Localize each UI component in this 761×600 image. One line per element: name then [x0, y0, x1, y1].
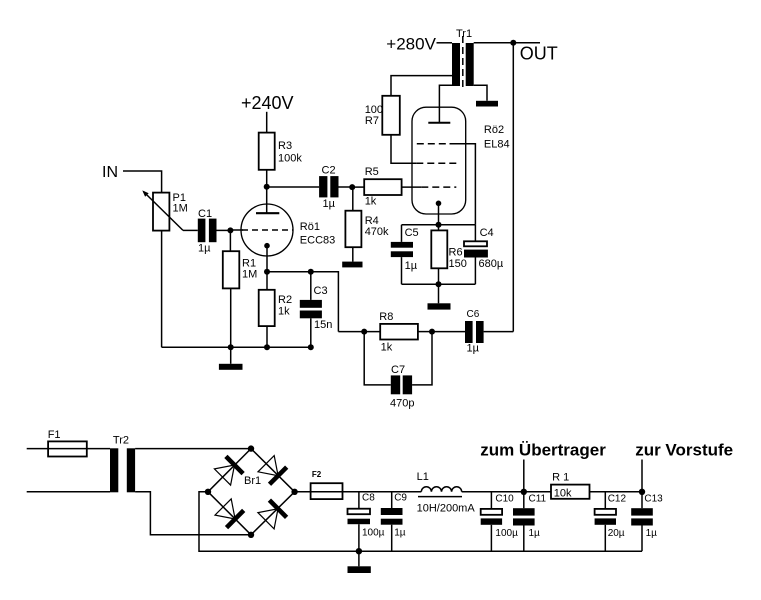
resistor R3: [259, 133, 275, 170]
node bridge left: [205, 489, 211, 495]
fuse F1: [48, 441, 87, 456]
svg-text:1µ: 1µ: [646, 528, 658, 539]
Rö2 control grid g1 (dashed): [421, 186, 456, 188]
ground (stage1): [219, 364, 243, 370]
wire rail to R2: [266, 272, 268, 290]
wire C11 bottom: [523, 526, 525, 552]
Rö1 grid (dashed): [242, 229, 293, 231]
transformer Tr1 core (dashed): [462, 36, 464, 90]
resistor R2: [259, 290, 275, 326]
wire R3 to anode node: [266, 170, 268, 187]
wire Rö1 cathode rail to feedback: [267, 272, 338, 332]
svg-text:Tr1: Tr1: [456, 28, 472, 40]
wire R7 to EL84 screen grid: [391, 135, 416, 164]
wire to ground (stage1): [230, 347, 232, 364]
svg-text:10k: 10k: [554, 487, 572, 499]
inductor L1 core line: [418, 496, 462, 498]
triode Rö1 envelope: [241, 204, 293, 256]
bridge Br1 edge bottom-right: [251, 492, 295, 535]
wire node A to R1: [229, 230, 231, 251]
svg-text:20µ: 20µ: [608, 528, 625, 539]
wire C2 to R5 node: [339, 186, 353, 188]
wire up to zum Übertrager: [523, 460, 525, 492]
svg-text:C1: C1: [198, 208, 212, 220]
node C (grid of EL84 divider): [349, 184, 355, 190]
svg-text:Rö1: Rö1: [300, 221, 320, 233]
wire C8 top: [358, 492, 360, 509]
capacitor C8 negative plate: [348, 519, 371, 525]
svg-text:R8: R8: [379, 311, 393, 323]
svg-text:680µ: 680µ: [479, 258, 504, 270]
svg-text:1k: 1k: [278, 306, 290, 318]
svg-text:100k: 100k: [278, 153, 302, 165]
capacitor C13: [631, 508, 653, 515]
wire bridge left to ground rail: [199, 492, 642, 551]
svg-text:R2: R2: [278, 294, 292, 306]
svg-text:F2: F2: [312, 470, 322, 479]
capacitor C8 positive plate: [348, 509, 371, 515]
wire R8 to right node: [418, 331, 432, 333]
svg-text:C8: C8: [362, 493, 375, 504]
ground (R4): [342, 262, 362, 268]
svg-text:C11: C11: [529, 494, 547, 505]
capacitor C5: [391, 242, 413, 248]
wire rail to C3: [310, 272, 312, 300]
svg-text:C5: C5: [405, 227, 419, 239]
wire node C to R5: [352, 186, 364, 188]
wire Tr1 primary bottom to EL84 anode: [439, 85, 452, 122]
node R2 ground junction: [264, 344, 270, 350]
Rö1 anode plate: [256, 212, 279, 214]
wire IN to P1 top: [123, 171, 162, 193]
svg-text:1k: 1k: [381, 342, 393, 354]
node cathode bottom junction: [436, 281, 442, 287]
node R8 left junction: [361, 329, 367, 335]
wire C13 top: [641, 492, 643, 508]
wire rail to R6: [438, 225, 440, 231]
svg-text:R3: R3: [278, 140, 292, 152]
svg-text:C3: C3: [314, 285, 328, 297]
wire R8 node down to C7: [364, 332, 391, 385]
wire Tr1 secondary to OUT: [474, 42, 540, 44]
wire C12 bottom: [604, 525, 606, 551]
wire C5 to bottom rail: [401, 257, 403, 284]
svg-text:1µ: 1µ: [467, 343, 480, 355]
node cathode rail junction: [436, 222, 442, 228]
capacitor C2: [319, 176, 327, 197]
capacitor C4 negative plate: [464, 250, 488, 258]
wire C3 to ground rail: [310, 318, 312, 347]
svg-text:C12: C12: [608, 494, 627, 505]
node bridge bottom: [248, 532, 254, 538]
svg-text:R5: R5: [365, 166, 379, 178]
resistor R8: [380, 324, 418, 340]
svg-text:R7: R7: [365, 115, 379, 127]
wire to ground (PSU): [358, 551, 360, 566]
potentiometer P1 body: [153, 193, 169, 231]
wire node B to Rö1 anode: [266, 187, 268, 214]
wire C4 to bottom rail: [474, 258, 476, 285]
svg-text:Rö2: Rö2: [484, 124, 504, 136]
svg-text:470p: 470p: [390, 398, 414, 410]
svg-text:C4: C4: [480, 227, 494, 239]
svg-text:+280V: +280V: [386, 34, 436, 53]
node C3 ground junction: [308, 344, 314, 350]
svg-text:L1: L1: [417, 471, 429, 483]
Rö1 cathode dot: [264, 243, 270, 249]
wire bridge right through F2 to L1: [295, 491, 422, 493]
wire P1 wiper to C1: [183, 229, 198, 231]
wire C8 bottom: [358, 524, 360, 551]
svg-text:+240V: +240V: [241, 93, 294, 113]
capacitor C10 positive plate: [481, 509, 502, 515]
wire node C to R4: [352, 187, 354, 211]
ground (EL84 cathode): [428, 303, 451, 309]
svg-text:1µ: 1µ: [529, 528, 541, 539]
svg-text:zum Übertrager: zum Übertrager: [480, 441, 606, 460]
node zur Vorstufe junction: [639, 489, 645, 495]
svg-text:C2: C2: [322, 165, 336, 177]
wire Tr1 secondary bottom to ground: [474, 85, 487, 101]
node B (anode of Rö1): [264, 184, 270, 190]
transformer Tr2 secondary winding: [127, 448, 135, 492]
svg-text:OUT: OUT: [520, 44, 558, 64]
diode D2 (top-right): [270, 467, 287, 484]
svg-text:R4: R4: [365, 215, 379, 227]
Rö2 screen grid g2 (dashed): [416, 162, 458, 164]
wire R1 to C13 node: [590, 491, 643, 493]
wire up to zur Vorstufe: [641, 460, 643, 492]
capacitor C7: [391, 375, 400, 394]
wire rail to C5: [401, 225, 403, 242]
ground (PSU): [348, 566, 371, 573]
wire C11 top: [523, 492, 525, 508]
wire C9 bottom: [391, 525, 393, 552]
wire C12 top: [604, 492, 606, 509]
wire C7 to R8 right node: [412, 332, 432, 385]
capacitor C10 negative plate: [481, 518, 502, 524]
wire R7 top to Tr1 primary: [391, 76, 452, 96]
svg-text:1µ: 1µ: [323, 198, 336, 210]
transformer Tr2 primary winding: [110, 448, 118, 492]
bridge Br1 edge top-left: [208, 449, 251, 492]
capacitor C9: [381, 508, 403, 515]
wire g3 to cathode rail: [450, 144, 476, 225]
svg-text:R6: R6: [449, 247, 463, 259]
node A (grid of Rö1): [227, 227, 233, 233]
svg-text:470k: 470k: [365, 226, 389, 238]
wire L1 to R1: [462, 491, 551, 493]
capacitor C4 positive plate: [464, 241, 487, 246]
Rö2 anode plate: [428, 122, 450, 124]
resistor R4: [345, 211, 361, 248]
node C3 top junction: [308, 269, 314, 275]
svg-text:10H/200mA: 10H/200mA: [417, 503, 476, 515]
inductor L1 windings: [421, 487, 461, 492]
svg-text:EL84: EL84: [484, 139, 510, 151]
potentiometer P1 arrow: [144, 192, 184, 231]
wire P1 bottom to ground rail: [161, 231, 163, 348]
resistor R5: [364, 179, 401, 195]
node PSU ground junction: [356, 548, 362, 554]
svg-text:R 1: R 1: [552, 472, 569, 484]
capacitor C12 positive plate: [595, 509, 616, 515]
svg-text:1k: 1k: [365, 195, 377, 207]
wire Rö1 cathode down: [266, 246, 268, 272]
svg-text:C6: C6: [467, 309, 480, 320]
wire stage1 ground rail: [162, 346, 311, 348]
wire mains bottom to Tr2: [27, 491, 110, 493]
svg-text:1µ: 1µ: [394, 528, 406, 539]
svg-text:F1: F1: [48, 429, 61, 441]
Rö2 suppressor grid g3 (dashed): [417, 143, 448, 145]
svg-text:zur Vorstufe: zur Vorstufe: [635, 441, 733, 460]
resistor R6: [431, 230, 447, 268]
svg-text:ECC83: ECC83: [300, 235, 335, 247]
diode D4 (bottom-right): [269, 500, 286, 517]
bridge Br1 edge bottom-left: [208, 492, 251, 535]
svg-text:1µ: 1µ: [405, 260, 418, 272]
wire OUT vertical to C6: [512, 43, 514, 332]
node zum Übertrager junction: [521, 489, 527, 495]
wire R6 to bottom rail: [438, 268, 440, 284]
wire +240V to R3: [266, 112, 268, 133]
ground (Tr1 secondary): [476, 101, 498, 107]
diode D3 (bottom-left): [227, 510, 244, 527]
node Rö1 cathode junction: [264, 269, 270, 275]
resistor R1: [223, 251, 240, 288]
wire node A to tube grid: [230, 229, 243, 231]
wire node to R8: [364, 331, 380, 333]
wire cathode rail: [402, 224, 476, 226]
node bridge top: [248, 445, 254, 451]
wire mains top through F1 to Tr2: [27, 448, 110, 450]
wire C13 bottom: [641, 526, 643, 552]
Rö2 cathode dot: [436, 201, 442, 207]
wire C10 bottom: [490, 525, 492, 551]
wire C6 to OUT line: [484, 331, 514, 333]
wire cathode bottom rail: [402, 283, 476, 285]
svg-text:C10: C10: [495, 494, 514, 505]
capacitor C1: [198, 219, 206, 243]
svg-text:100µ: 100µ: [495, 528, 518, 539]
svg-text:15n: 15n: [314, 319, 332, 331]
wire rail to C4: [474, 225, 476, 242]
wire to ground (EL84 cathode): [438, 284, 440, 303]
wire C9 top: [391, 492, 393, 508]
capacitor C12 negative plate: [595, 518, 616, 524]
node OUT junction: [510, 40, 516, 46]
svg-text:1M: 1M: [173, 203, 188, 215]
pentode Rö2 envelope: [412, 107, 466, 214]
fuse F2: [311, 483, 343, 499]
wire Tr2 secondary top to bridge: [135, 448, 251, 450]
svg-text:1M: 1M: [242, 269, 257, 281]
wire R4 to ground: [352, 247, 354, 261]
transformer Tr1 secondary winding: [466, 43, 474, 86]
svg-text:100µ: 100µ: [362, 528, 385, 539]
wire C10 top: [490, 492, 492, 509]
wire Rö2 cathode down: [438, 203, 440, 225]
diode D1 (top-left): [226, 456, 243, 473]
wire node B to C2: [267, 186, 319, 188]
wire feedback to R8 node: [338, 331, 364, 333]
wire R5 to EL84 grid: [402, 186, 422, 188]
wire Tr2 secondary bottom to bridge: [135, 492, 251, 535]
wire C1 to grid node: [217, 229, 231, 231]
wire +280V to Tr1: [437, 42, 453, 44]
capacitor C11: [513, 508, 535, 515]
node R8 right junction: [429, 329, 435, 335]
svg-text:1µ: 1µ: [198, 243, 211, 255]
capacitor C3: [300, 300, 322, 308]
transformer Tr1 primary winding: [452, 43, 460, 86]
svg-text:C7: C7: [391, 364, 405, 376]
resistor R7: [382, 96, 400, 135]
svg-text:IN: IN: [102, 164, 118, 181]
bridge Br1 edge top-right: [251, 449, 295, 492]
svg-text:C9: C9: [394, 493, 407, 504]
svg-text:150: 150: [449, 258, 467, 270]
node bridge right: [291, 489, 297, 495]
wire node to C6: [432, 331, 465, 333]
capacitor C6: [465, 321, 473, 343]
svg-text:C13: C13: [644, 494, 663, 505]
svg-text:Tr2: Tr2: [113, 435, 129, 447]
svg-text:Br1: Br1: [244, 475, 261, 487]
wire R2 to ground rail: [266, 326, 268, 347]
node R1 ground junction: [228, 344, 234, 350]
resistor R 1: [551, 485, 590, 499]
wire R1 to ground rail: [230, 288, 232, 347]
